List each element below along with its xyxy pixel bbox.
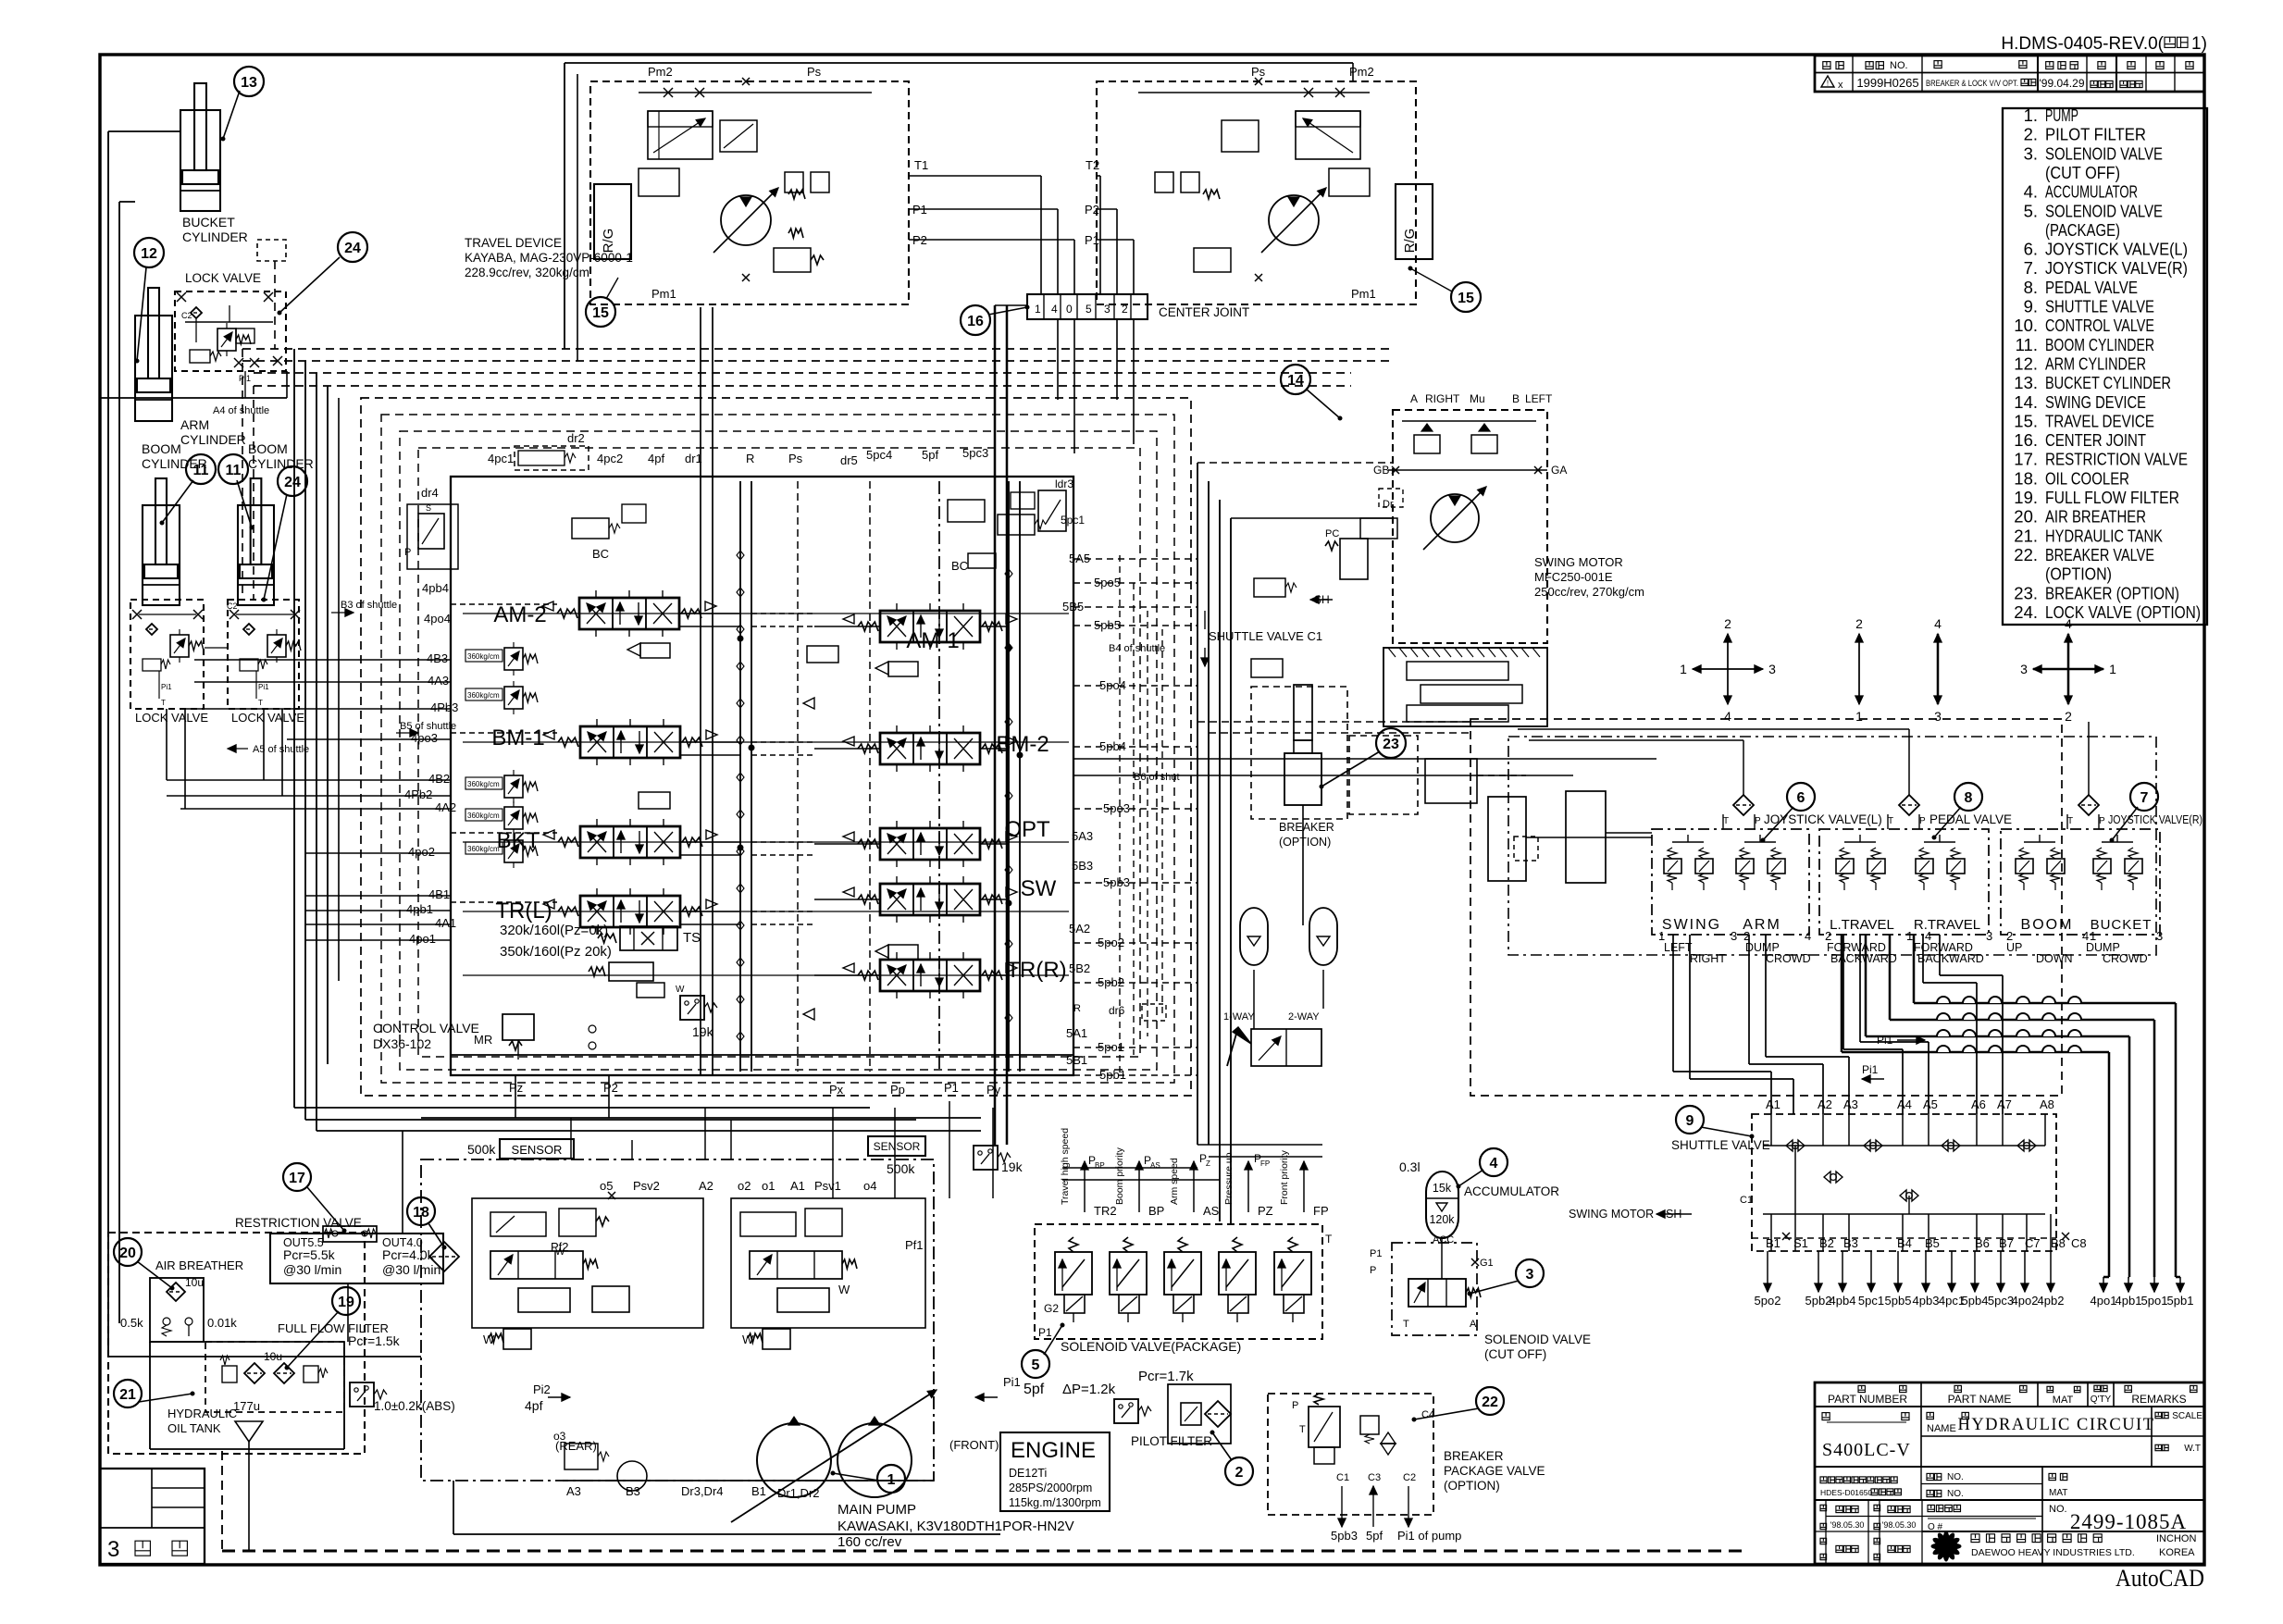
svg-text:NAME: NAME bbox=[1927, 1423, 1956, 1434]
svg-text:5po1: 5po1 bbox=[2141, 1294, 2168, 1308]
svg-text:4B1: 4B1 bbox=[428, 887, 450, 901]
svg-text:DOWN: DOWN bbox=[2036, 952, 2073, 965]
svg-text:350k/160l(Pz 20k): 350k/160l(Pz 20k) bbox=[500, 944, 612, 960]
svg-text:BP: BP bbox=[1148, 1204, 1164, 1218]
svg-text:5pb3: 5pb3 bbox=[1331, 1529, 1358, 1543]
svg-text:AM-2: AM-2 bbox=[493, 602, 546, 627]
svg-text:(FRONT): (FRONT) bbox=[949, 1438, 999, 1452]
svg-text:(OPTION): (OPTION) bbox=[1444, 1479, 1500, 1493]
svg-text:360kg/cm: 360kg/cm bbox=[467, 691, 500, 700]
svg-text:4pb4: 4pb4 bbox=[1830, 1294, 1856, 1308]
svg-text:360kg/cm: 360kg/cm bbox=[467, 812, 500, 820]
svg-text:12.: 12. bbox=[2014, 353, 2038, 373]
svg-text:G2: G2 bbox=[1044, 1302, 1059, 1315]
svg-text:CYLINDER: CYLINDER bbox=[182, 229, 248, 244]
svg-text:CYLINDER: CYLINDER bbox=[248, 456, 314, 471]
svg-text:OIL COOLER: OIL COOLER bbox=[2045, 468, 2129, 488]
svg-text:AS: AS bbox=[1150, 1161, 1160, 1170]
svg-text:A1: A1 bbox=[1766, 1097, 1780, 1111]
svg-text:BOOM CYLINDER: BOOM CYLINDER bbox=[2045, 335, 2154, 354]
svg-text:A: A bbox=[1410, 392, 1418, 405]
svg-text:1-WAY: 1-WAY bbox=[1223, 1011, 1255, 1023]
svg-text:3: 3 bbox=[1768, 662, 1776, 676]
svg-text:5A1: 5A1 bbox=[1066, 1026, 1087, 1040]
svg-text:W: W bbox=[483, 1333, 495, 1346]
svg-text:CENTER JOINT: CENTER JOINT bbox=[1159, 305, 1249, 319]
svg-text:TR(R): TR(R) bbox=[1006, 958, 1066, 983]
svg-text:1999H0265: 1999H0265 bbox=[1856, 76, 1918, 90]
svg-text:3: 3 bbox=[1526, 1267, 1534, 1283]
svg-text:ARM CYLINDER: ARM CYLINDER bbox=[2045, 353, 2146, 373]
svg-text:P: P bbox=[1755, 816, 1761, 826]
svg-text:5pb2: 5pb2 bbox=[1805, 1294, 1832, 1308]
svg-text:dr2: dr2 bbox=[567, 431, 585, 445]
svg-text:HDES-D01650: HDES-D01650 bbox=[1820, 1488, 1872, 1497]
svg-text:Travel high speed: Travel high speed bbox=[1060, 1128, 1071, 1205]
svg-text:B5 of shuttle: B5 of shuttle bbox=[400, 721, 456, 732]
svg-text:15k: 15k bbox=[1433, 1182, 1452, 1195]
svg-text:(OPTION): (OPTION) bbox=[2045, 564, 2112, 584]
svg-text:L.TRAVEL: L.TRAVEL bbox=[1830, 917, 1894, 933]
svg-text:Pm1: Pm1 bbox=[1351, 287, 1376, 301]
svg-text:2: 2 bbox=[2065, 709, 2072, 724]
svg-text:CONTROL VALVE: CONTROL VALVE bbox=[373, 1021, 479, 1035]
svg-text:6.: 6. bbox=[2024, 240, 2038, 259]
svg-text:4po2: 4po2 bbox=[2012, 1294, 2039, 1308]
svg-text:S: S bbox=[426, 503, 431, 513]
svg-text:o1: o1 bbox=[762, 1179, 775, 1193]
svg-text:KAWASAKI, K3V180DTH1POR-HN2V: KAWASAKI, K3V180DTH1POR-HN2V bbox=[838, 1519, 1074, 1534]
svg-text:5pb4: 5pb4 bbox=[1962, 1294, 1989, 1308]
svg-text:BUCKET: BUCKET bbox=[182, 215, 235, 229]
svg-text:Pcr=4.0k: Pcr=4.0k bbox=[382, 1247, 435, 1262]
svg-text:MAT: MAT bbox=[2049, 1488, 2067, 1498]
svg-text:PILOT FILTER: PILOT FILTER bbox=[2045, 125, 2146, 144]
svg-text:TRAVEL DEVICE: TRAVEL DEVICE bbox=[2045, 411, 2154, 430]
svg-text:!: ! bbox=[1827, 80, 1829, 88]
svg-text:P1: P1 bbox=[1370, 1248, 1382, 1259]
svg-text:W: W bbox=[838, 1283, 850, 1296]
svg-text:SW: SW bbox=[1021, 876, 1057, 901]
svg-text:C8: C8 bbox=[2071, 1236, 2087, 1250]
svg-text:Ps: Ps bbox=[788, 452, 803, 465]
svg-text:13.: 13. bbox=[2014, 373, 2038, 392]
svg-text:HYDRAULIC TANK: HYDRAULIC TANK bbox=[2045, 526, 2164, 545]
svg-text:0.01k: 0.01k bbox=[207, 1316, 237, 1330]
svg-text:'98.05.30: '98.05.30 bbox=[1882, 1520, 1917, 1530]
svg-text:250cc/rev, 270kg/cm: 250cc/rev, 270kg/cm bbox=[1534, 585, 1644, 599]
svg-text:9.: 9. bbox=[2024, 297, 2038, 316]
svg-text:5B1: 5B1 bbox=[1066, 1053, 1087, 1067]
svg-text:Pi2: Pi2 bbox=[533, 1382, 551, 1396]
svg-text:P: P bbox=[1919, 816, 1926, 826]
svg-text:4: 4 bbox=[1805, 929, 1811, 943]
svg-text:24: 24 bbox=[344, 241, 361, 256]
svg-text:T: T bbox=[1299, 1424, 1306, 1435]
svg-text:FULL FLOW FILTER: FULL FLOW FILTER bbox=[2045, 488, 2179, 507]
svg-text:SOLENOID VALVE: SOLENOID VALVE bbox=[2045, 201, 2163, 220]
svg-text:MAIN PUMP: MAIN PUMP bbox=[838, 1502, 916, 1518]
svg-text:RIGHT: RIGHT bbox=[1425, 392, 1460, 405]
svg-text:NO.: NO. bbox=[1947, 1489, 1964, 1499]
svg-text:BACKWARD: BACKWARD bbox=[1917, 952, 1984, 965]
svg-text:120k: 120k bbox=[1429, 1213, 1455, 1226]
svg-text:PEDAL VALVE: PEDAL VALVE bbox=[2045, 278, 2138, 297]
svg-text:4pb1: 4pb1 bbox=[2115, 1294, 2142, 1308]
svg-text:16: 16 bbox=[967, 314, 984, 329]
svg-text:Front priority: Front priority bbox=[1279, 1149, 1290, 1205]
svg-text:360kg/cm: 360kg/cm bbox=[467, 780, 500, 788]
svg-text:@30 l/min: @30 l/min bbox=[382, 1262, 440, 1277]
svg-text:1): 1) bbox=[2191, 34, 2207, 54]
svg-text:Ps: Ps bbox=[807, 65, 822, 79]
svg-text:17.: 17. bbox=[2014, 450, 2038, 469]
svg-text:4po1: 4po1 bbox=[2091, 1294, 2117, 1308]
svg-text:Psv1: Psv1 bbox=[814, 1179, 841, 1193]
svg-text:5pf: 5pf bbox=[922, 448, 938, 462]
svg-text:o4: o4 bbox=[863, 1179, 876, 1193]
svg-text:4pc1: 4pc1 bbox=[488, 452, 514, 465]
svg-text:A1: A1 bbox=[790, 1179, 805, 1193]
svg-text:0: 0 bbox=[1066, 303, 1073, 316]
svg-text:2: 2 bbox=[1122, 303, 1128, 316]
svg-text:BUCKET: BUCKET bbox=[2091, 917, 2153, 933]
svg-text:Arm speed: Arm speed bbox=[1169, 1158, 1180, 1205]
svg-text:17: 17 bbox=[289, 1171, 305, 1186]
svg-text:7: 7 bbox=[2140, 790, 2149, 806]
svg-text:1: 1 bbox=[2109, 662, 2116, 676]
svg-text:'99.04.29: '99.04.29 bbox=[2039, 77, 2084, 90]
svg-text:P: P bbox=[1292, 1400, 1298, 1411]
svg-text:4pb1: 4pb1 bbox=[406, 902, 433, 916]
svg-text:AM-1: AM-1 bbox=[906, 628, 959, 653]
svg-text:R: R bbox=[1073, 1003, 1081, 1014]
svg-text:11: 11 bbox=[226, 463, 242, 478]
svg-text:Dr1,Dr2: Dr1,Dr2 bbox=[777, 1486, 820, 1500]
svg-text:Pi1 of pump: Pi1 of pump bbox=[1397, 1529, 1461, 1543]
svg-text:C2: C2 bbox=[181, 311, 192, 320]
svg-text:10u: 10u bbox=[185, 1276, 204, 1289]
svg-text:4pf: 4pf bbox=[525, 1398, 543, 1413]
svg-text:5pf: 5pf bbox=[1366, 1529, 1383, 1543]
svg-text:RIGHT: RIGHT bbox=[1690, 952, 1726, 965]
svg-text:6: 6 bbox=[1797, 790, 1805, 806]
svg-text:Dr3,Dr4: Dr3,Dr4 bbox=[681, 1484, 724, 1498]
svg-text:4B2: 4B2 bbox=[428, 772, 450, 786]
svg-text:5pc1: 5pc1 bbox=[1858, 1294, 1884, 1308]
svg-text:AutoCAD: AutoCAD bbox=[2115, 1565, 2204, 1592]
svg-text:AIR BREATHER: AIR BREATHER bbox=[2045, 507, 2146, 527]
svg-text:P: P bbox=[404, 547, 411, 558]
svg-text:W.T: W.T bbox=[2184, 1444, 2201, 1454]
svg-text:B6 of shut: B6 of shut bbox=[1134, 772, 1180, 783]
svg-text:A4 of shuttle: A4 of shuttle bbox=[213, 405, 269, 416]
svg-text:285PS/2000rpm: 285PS/2000rpm bbox=[1009, 1481, 1092, 1494]
svg-text:Pi1: Pi1 bbox=[1003, 1375, 1021, 1389]
svg-text:5pf: 5pf bbox=[1024, 1382, 1045, 1397]
svg-text:R.TRAVEL: R.TRAVEL bbox=[1914, 917, 1980, 933]
svg-text:FP: FP bbox=[1260, 1159, 1270, 1168]
svg-text:H.DMS-0405-REV.0(: H.DMS-0405-REV.0( bbox=[2001, 34, 2164, 54]
svg-text:ACC: ACC bbox=[1433, 1234, 1454, 1246]
svg-text:177u: 177u bbox=[233, 1399, 260, 1413]
svg-text:CROWD: CROWD bbox=[1766, 952, 1811, 965]
svg-text:C1: C1 bbox=[1740, 1195, 1753, 1206]
svg-text:PART NUMBER: PART NUMBER bbox=[1828, 1393, 1907, 1406]
svg-text:BP: BP bbox=[1095, 1161, 1105, 1170]
svg-text:3: 3 bbox=[1731, 929, 1737, 943]
svg-text:OIL TANK: OIL TANK bbox=[168, 1421, 221, 1435]
svg-text:P1: P1 bbox=[1038, 1326, 1052, 1339]
svg-text:5: 5 bbox=[1086, 303, 1092, 316]
svg-text:BOOM: BOOM bbox=[142, 441, 181, 456]
svg-text:A: A bbox=[1470, 1319, 1477, 1330]
svg-text:T: T bbox=[1403, 1319, 1409, 1330]
svg-text:15: 15 bbox=[1458, 291, 1474, 306]
svg-text:PZ: PZ bbox=[1258, 1204, 1273, 1218]
svg-text:12: 12 bbox=[141, 246, 157, 262]
svg-text:HYDRAULIC CIRCUIT: HYDRAULIC CIRCUIT bbox=[1957, 1416, 2154, 1434]
svg-text:360kg/cm: 360kg/cm bbox=[467, 845, 500, 853]
svg-text:P1: P1 bbox=[944, 1081, 959, 1095]
svg-text:NO.: NO. bbox=[2049, 1504, 2067, 1515]
svg-text:2-WAY: 2-WAY bbox=[1288, 1011, 1320, 1023]
svg-text:C2: C2 bbox=[1403, 1472, 1416, 1483]
svg-text:P2: P2 bbox=[603, 1081, 618, 1095]
svg-text:3: 3 bbox=[107, 1537, 119, 1562]
svg-text:A6: A6 bbox=[1971, 1097, 1986, 1111]
svg-text:(REAR): (REAR) bbox=[555, 1439, 597, 1453]
svg-text:4: 4 bbox=[1724, 709, 1731, 724]
svg-text:14.: 14. bbox=[2014, 392, 2038, 412]
svg-text:BM-2: BM-2 bbox=[996, 732, 1048, 757]
svg-text:A2: A2 bbox=[699, 1179, 713, 1193]
svg-text:228.9cc/rev, 320kg/cm: 228.9cc/rev, 320kg/cm bbox=[465, 266, 589, 279]
svg-text:20: 20 bbox=[119, 1246, 136, 1261]
svg-text:Pp: Pp bbox=[890, 1083, 905, 1097]
svg-text:SWING: SWING bbox=[1662, 917, 1721, 933]
svg-text:TR2: TR2 bbox=[1094, 1204, 1117, 1218]
svg-text:S400LC-V: S400LC-V bbox=[1822, 1440, 1911, 1460]
svg-text:22: 22 bbox=[1482, 1395, 1498, 1410]
svg-text:o5: o5 bbox=[600, 1179, 613, 1193]
svg-text:FP: FP bbox=[1313, 1204, 1329, 1218]
svg-text:5pc3: 5pc3 bbox=[1988, 1294, 2014, 1308]
svg-text:4: 4 bbox=[1051, 303, 1058, 316]
svg-text:1: 1 bbox=[1906, 929, 1913, 943]
svg-text:(OPTION): (OPTION) bbox=[1279, 836, 1331, 849]
svg-text:4: 4 bbox=[2065, 616, 2072, 631]
svg-text:Psv2: Psv2 bbox=[633, 1179, 660, 1193]
svg-text:A7: A7 bbox=[1997, 1097, 2012, 1111]
svg-text:BUCKET CYLINDER: BUCKET CYLINDER bbox=[2045, 373, 2171, 392]
svg-text:CYLINDER: CYLINDER bbox=[180, 432, 246, 447]
svg-text:BREAKER: BREAKER bbox=[1279, 821, 1334, 834]
svg-text:P: P bbox=[1370, 1265, 1376, 1276]
svg-text:T: T bbox=[258, 699, 263, 707]
svg-text:PILOT FILTER: PILOT FILTER bbox=[1131, 1434, 1212, 1448]
svg-text:Pcr=1.5k: Pcr=1.5k bbox=[348, 1333, 401, 1348]
svg-text:5: 5 bbox=[1032, 1357, 1040, 1373]
svg-text:1.0±0.2k(ABS): 1.0±0.2k(ABS) bbox=[374, 1399, 455, 1413]
svg-text:B4 of shuttle: B4 of shuttle bbox=[1109, 643, 1165, 654]
svg-text:(CUT OFF): (CUT OFF) bbox=[1484, 1347, 1546, 1361]
svg-text:BREAKER (OPTION): BREAKER (OPTION) bbox=[2045, 583, 2179, 602]
svg-text:UP: UP bbox=[2006, 941, 2022, 954]
svg-text:W: W bbox=[676, 985, 685, 995]
svg-text:GA: GA bbox=[1551, 464, 1567, 477]
svg-text:INCHON: INCHON bbox=[2156, 1533, 2196, 1544]
svg-text:A3: A3 bbox=[1843, 1097, 1858, 1111]
svg-text:Pm2: Pm2 bbox=[648, 65, 673, 79]
svg-text:B1: B1 bbox=[751, 1484, 766, 1498]
svg-text:'98.05.30: '98.05.30 bbox=[1830, 1520, 1865, 1530]
svg-text:C3: C3 bbox=[1368, 1472, 1381, 1483]
svg-text:Px: Px bbox=[829, 1083, 844, 1097]
svg-text:18.: 18. bbox=[2014, 468, 2038, 488]
svg-text:JOYSTICK VALVE(R): JOYSTICK VALVE(R) bbox=[2045, 258, 2188, 278]
svg-text:Mu: Mu bbox=[1470, 392, 1485, 405]
svg-text:4pf: 4pf bbox=[648, 452, 664, 465]
svg-text:BREAKER VALVE: BREAKER VALVE bbox=[2045, 545, 2154, 564]
svg-text:ACCUMULATOR: ACCUMULATOR bbox=[1464, 1184, 1559, 1198]
svg-text:B3: B3 bbox=[626, 1484, 640, 1498]
svg-text:TS: TS bbox=[683, 930, 701, 946]
svg-text:23.: 23. bbox=[2014, 583, 2038, 602]
svg-text:PACKAGE VALVE: PACKAGE VALVE bbox=[1444, 1464, 1545, 1478]
svg-text:5B2: 5B2 bbox=[1069, 961, 1090, 975]
svg-text:C2: C2 bbox=[227, 601, 238, 611]
svg-text:MFC250-001E: MFC250-001E bbox=[1534, 570, 1613, 584]
svg-text:1: 1 bbox=[1035, 303, 1041, 316]
svg-text:BOOM: BOOM bbox=[2021, 917, 2074, 933]
svg-text:5po2: 5po2 bbox=[1755, 1294, 1781, 1308]
svg-text:4Pb2: 4Pb2 bbox=[404, 787, 432, 801]
svg-text:OPT: OPT bbox=[1004, 817, 1050, 842]
svg-text:C4: C4 bbox=[1421, 1409, 1434, 1420]
svg-text:LOCK VALVE: LOCK VALVE bbox=[135, 711, 208, 725]
svg-text:SWING MOTOR: SWING MOTOR bbox=[1569, 1208, 1654, 1221]
svg-text:P: P bbox=[2099, 816, 2105, 826]
svg-text:A3: A3 bbox=[566, 1484, 581, 1498]
svg-text:DE12Ti: DE12Ti bbox=[1009, 1467, 1047, 1480]
svg-text:CENTER JOINT: CENTER JOINT bbox=[2045, 430, 2146, 450]
svg-text:3: 3 bbox=[1934, 709, 1942, 724]
svg-text:4po4: 4po4 bbox=[424, 612, 451, 626]
svg-text:dr5: dr5 bbox=[840, 453, 858, 467]
svg-text:2: 2 bbox=[1235, 1465, 1244, 1481]
svg-text:5.: 5. bbox=[2024, 201, 2038, 220]
svg-text:PC: PC bbox=[1325, 528, 1339, 539]
svg-text:2: 2 bbox=[1724, 616, 1731, 631]
svg-text:Pressure up: Pressure up bbox=[1223, 1152, 1235, 1205]
svg-text:5pb5: 5pb5 bbox=[1885, 1294, 1912, 1308]
svg-text:T: T bbox=[1888, 816, 1893, 826]
svg-text:Pi1: Pi1 bbox=[1862, 1063, 1879, 1076]
svg-text:RESTRICTION VALVE: RESTRICTION VALVE bbox=[2045, 450, 2188, 469]
svg-text:(CUT OFF): (CUT OFF) bbox=[2045, 163, 2120, 182]
svg-text:16.: 16. bbox=[2014, 430, 2038, 450]
svg-text:8.: 8. bbox=[2024, 278, 2038, 297]
svg-text:0.3l: 0.3l bbox=[1399, 1159, 1421, 1174]
svg-text:NO.: NO. bbox=[1947, 1472, 1964, 1482]
svg-text:R/G: R/G bbox=[601, 229, 616, 254]
svg-text:Z: Z bbox=[1206, 1159, 1210, 1168]
svg-text:T: T bbox=[161, 699, 166, 707]
svg-text:21: 21 bbox=[119, 1387, 136, 1403]
svg-text:360kg/cm: 360kg/cm bbox=[467, 652, 500, 661]
svg-text:o2: o2 bbox=[738, 1179, 751, 1193]
svg-text:DX36-102: DX36-102 bbox=[373, 1036, 431, 1051]
svg-text:(PACKAGE): (PACKAGE) bbox=[2045, 220, 2120, 240]
svg-text:5B3: 5B3 bbox=[1072, 859, 1093, 873]
svg-text:115kg.m/1300rpm: 115kg.m/1300rpm bbox=[1009, 1496, 1101, 1509]
svg-text:JOYSTICK VALVE(R): JOYSTICK VALVE(R) bbox=[2108, 813, 2202, 826]
svg-text:5A3: 5A3 bbox=[1072, 829, 1093, 843]
svg-text:Q'TY: Q'TY bbox=[2091, 1395, 2112, 1405]
svg-text:4pb4: 4pb4 bbox=[422, 581, 449, 595]
svg-text:SHUTTLE VALVE: SHUTTLE VALVE bbox=[1671, 1138, 1770, 1152]
svg-text:5pc1: 5pc1 bbox=[1061, 514, 1085, 527]
svg-text:KOREA: KOREA bbox=[2159, 1547, 2195, 1558]
svg-text:2.: 2. bbox=[2024, 125, 2038, 144]
svg-text:2499-1085A: 2499-1085A bbox=[2070, 1510, 2187, 1533]
svg-text:4pb2: 4pb2 bbox=[2038, 1294, 2065, 1308]
svg-text:1: 1 bbox=[887, 1472, 896, 1488]
svg-text:3: 3 bbox=[1104, 303, 1110, 316]
svg-text:7.: 7. bbox=[2024, 258, 2038, 278]
svg-text:dr1: dr1 bbox=[685, 452, 702, 465]
svg-text:MAT: MAT bbox=[2053, 1395, 2074, 1406]
svg-text:R/G: R/G bbox=[1402, 229, 1418, 254]
svg-text:SWING MOTOR: SWING MOTOR bbox=[1534, 555, 1623, 569]
svg-text:3.: 3. bbox=[2024, 143, 2038, 163]
svg-text:REMARKS: REMARKS bbox=[2131, 1393, 2186, 1406]
svg-text:11: 11 bbox=[193, 463, 209, 478]
svg-text:Ps: Ps bbox=[1251, 65, 1266, 79]
svg-text:T: T bbox=[1723, 816, 1729, 826]
svg-text:9: 9 bbox=[1686, 1113, 1694, 1129]
svg-text:T: T bbox=[1325, 1233, 1333, 1246]
svg-text:NO.: NO. bbox=[1890, 60, 1908, 71]
svg-text:BREAKER: BREAKER bbox=[1444, 1449, 1504, 1463]
svg-text:SENSOR: SENSOR bbox=[874, 1140, 921, 1153]
svg-text:SHUTTLE VALVE C1: SHUTTLE VALVE C1 bbox=[1209, 629, 1322, 643]
svg-text:4A1: 4A1 bbox=[435, 916, 456, 930]
svg-text:G1: G1 bbox=[1480, 1258, 1494, 1269]
svg-text:11.: 11. bbox=[2016, 335, 2038, 354]
svg-text:T1: T1 bbox=[914, 158, 928, 172]
svg-text:3: 3 bbox=[2156, 929, 2163, 943]
svg-text:Pf2: Pf2 bbox=[551, 1240, 569, 1254]
svg-text:2: 2 bbox=[1855, 616, 1863, 631]
svg-text:BM-1: BM-1 bbox=[491, 725, 544, 750]
svg-text:23: 23 bbox=[1383, 737, 1399, 752]
svg-text:LOCK VALVE: LOCK VALVE bbox=[185, 271, 261, 285]
svg-text:21.: 21. bbox=[2014, 526, 2038, 545]
svg-text:19k: 19k bbox=[692, 1024, 714, 1039]
svg-text:SOLENOID VALVE: SOLENOID VALVE bbox=[2045, 143, 2163, 163]
svg-text:5pc3: 5pc3 bbox=[962, 446, 988, 460]
svg-text:AIR BREATHER: AIR BREATHER bbox=[155, 1258, 243, 1272]
svg-text:SWING DEVICE: SWING DEVICE bbox=[2045, 392, 2146, 412]
svg-text:SCALE: SCALE bbox=[2172, 1411, 2202, 1421]
svg-text:A8: A8 bbox=[2040, 1097, 2054, 1111]
svg-text:5pc4: 5pc4 bbox=[866, 448, 892, 462]
svg-text:20.: 20. bbox=[2014, 507, 2038, 527]
svg-text:SHUTTLE VALVE: SHUTTLE VALVE bbox=[2045, 297, 2154, 316]
svg-text:10.: 10. bbox=[2014, 316, 2038, 335]
